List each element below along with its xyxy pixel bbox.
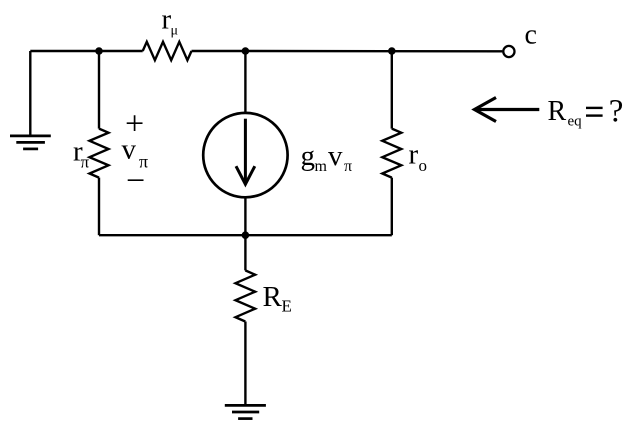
svg-text:E: E — [282, 297, 292, 316]
svg-text:o: o — [419, 156, 428, 175]
svg-text:−: − — [126, 163, 145, 200]
wire bottom rail — [99, 234, 392, 236]
wire r_o lower lead — [391, 178, 393, 236]
wire top middle segment (r_mu to node B) — [192, 50, 246, 52]
svg-text:r: r — [409, 139, 419, 171]
wire current source upper lead — [244, 51, 246, 113]
label r_mu — [162, 3, 179, 38]
ground (left) — [10, 136, 51, 149]
svg-text:v: v — [328, 140, 343, 172]
wire left vertical drop to ground — [29, 51, 31, 136]
label r_pi — [73, 136, 90, 172]
label g_m v_pi — [301, 140, 353, 175]
wire current source lower lead — [244, 198, 246, 236]
wire r_pi lower lead — [98, 178, 100, 236]
svg-text:?: ? — [609, 93, 624, 129]
svg-text:π: π — [81, 153, 90, 172]
svg-text:v: v — [122, 134, 137, 166]
wire top right segment (node B to node C and terminal) — [245, 50, 502, 53]
wire R_E upper lead — [244, 235, 246, 270]
svg-text:g: g — [301, 140, 316, 172]
svg-text:c: c — [525, 20, 537, 51]
resistor R2 r_pi (zigzag) — [90, 129, 109, 178]
label R_E — [263, 281, 292, 316]
svg-text:R: R — [263, 281, 283, 313]
arrow for Req measurement direction — [475, 98, 540, 122]
wire r_o upper lead — [391, 51, 393, 129]
node D (junction dot, bottom rail / R_E) — [242, 231, 250, 239]
wire top-left horizontal segment — [30, 50, 142, 52]
resistor R1 r_mu (zigzag) — [143, 42, 192, 60]
node B (junction dot, top of current source) — [242, 47, 250, 55]
svg-text:μ: μ — [171, 23, 179, 38]
current source U1 circle — [203, 113, 287, 197]
svg-text:m: m — [315, 158, 328, 175]
resistor R3 r_o (zigzag) — [382, 129, 401, 178]
node A (junction dot, top of r_pi) — [95, 47, 103, 55]
current source U1 arrow — [236, 119, 255, 185]
wire R_E lower lead — [244, 322, 246, 406]
ground (bottom) — [225, 405, 266, 418]
svg-text:eq: eq — [568, 114, 583, 130]
terminal c (open circle) — [503, 46, 514, 57]
label v_pi — [122, 134, 149, 172]
label r_o — [409, 139, 428, 176]
svg-text:π: π — [344, 158, 352, 175]
wire r_pi upper lead — [98, 51, 100, 129]
label R_eq = ? — [548, 93, 624, 129]
node C (junction dot, top of r_o) — [388, 47, 396, 55]
resistor R4 R_E (zigzag) — [236, 270, 256, 321]
svg-text:R: R — [548, 96, 567, 127]
